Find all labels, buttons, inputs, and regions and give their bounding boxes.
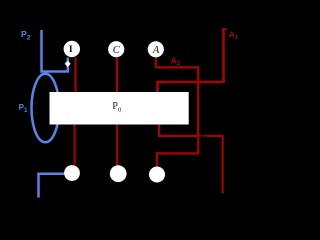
- wire: red lead from resistance box bottom right going down: [159, 124, 200, 136]
- wire: blue probe lead P2: [42, 30, 68, 72]
- bottom terminal 2: [110, 165, 127, 182]
- svg-text:I: I: [69, 45, 73, 55]
- bottom terminal 3: [149, 167, 165, 183]
- wire: thin segment of same lead right of crossing: [200, 135, 208, 137]
- wire: red branch A1 from top right into resistance box top: [158, 28, 224, 93]
- wire: red lead from ammeter A around right side to bottom terminal: [156, 57, 198, 166]
- resistor box R0: [50, 92, 189, 125]
- svg-text:A1: A1: [229, 30, 239, 41]
- wire: red lead from meter C down to resistance box: [116, 57, 118, 93]
- svg-text:A2: A2: [171, 56, 181, 67]
- ammeter I: [64, 41, 80, 57]
- svg-text:C: C: [113, 45, 121, 56]
- probe tip diamond: [65, 61, 71, 67]
- svg-text:A: A: [152, 45, 160, 56]
- wire: red lead resistance box to bottom terminal 2: [116, 124, 118, 165]
- wire: red lead from ammeter I down to resistance box: [74, 57, 76, 93]
- wire: red lead continuing right and down: [207, 136, 223, 193]
- wire: red lead resistance box to bottom terminal 1: [73, 124, 75, 165]
- wire: blue lead from bottom terminal: [39, 174, 65, 198]
- meter C: [108, 41, 124, 57]
- svg-text:P1: P1: [19, 103, 28, 114]
- current clamp P1 (blue ellipse): [32, 74, 60, 143]
- ammeter A: [148, 41, 164, 57]
- wire: tick at top of A1 lead: [224, 28, 228, 30]
- svg-text:P2: P2: [21, 29, 31, 42]
- bottom terminal 1: [64, 165, 80, 181]
